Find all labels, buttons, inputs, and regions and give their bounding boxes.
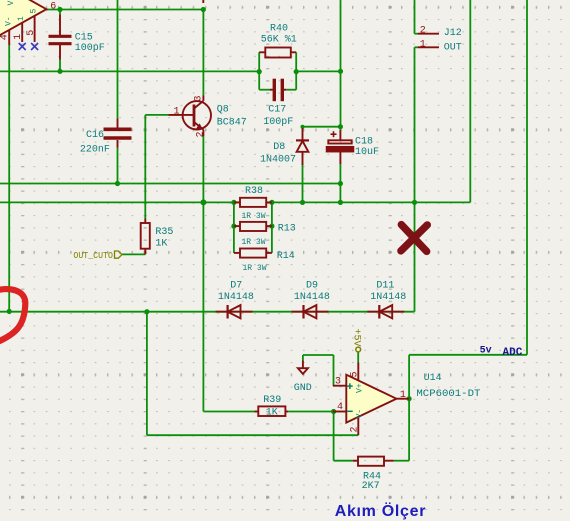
svg-text:10uF: 10uF (355, 147, 379, 158)
svg-text:3: 3 (194, 95, 205, 101)
svg-text:D8: D8 (273, 142, 285, 153)
svg-text:J12: J12 (444, 28, 462, 39)
svg-text:5v: 5v (480, 346, 492, 357)
svg-text:2: 2 (196, 131, 207, 137)
svg-text:V-: V- (4, 16, 13, 26)
svg-text:1: 1 (174, 107, 180, 118)
svg-text:R38: R38 (245, 186, 263, 197)
svg-text:2K7: 2K7 (362, 481, 380, 492)
svg-text:MCP6001-DT: MCP6001-DT (416, 389, 480, 400)
svg-text:1K: 1K (266, 408, 278, 419)
svg-text:D9: D9 (306, 281, 318, 292)
svg-text:Akım Ölçer: Akım Ölçer (335, 501, 426, 520)
svg-text:5: 5 (30, 9, 39, 14)
svg-text:Q8: Q8 (217, 105, 229, 116)
svg-text:C18: C18 (355, 136, 373, 147)
svg-text:5: 5 (350, 371, 361, 377)
svg-text:1R 3W: 1R 3W (242, 238, 266, 247)
svg-text:2: 2 (350, 426, 361, 432)
svg-text:D7: D7 (230, 281, 242, 292)
svg-text:100pF: 100pF (263, 117, 293, 128)
svg-text:1N4148: 1N4148 (370, 292, 406, 303)
svg-text:1: 1 (17, 16, 26, 21)
svg-text:1: 1 (13, 34, 24, 40)
svg-text:D11: D11 (376, 281, 394, 292)
svg-text:V-: V- (356, 409, 365, 419)
svg-text:C17: C17 (268, 105, 286, 116)
svg-text:4: 4 (337, 402, 343, 413)
svg-text:V+: V+ (356, 383, 365, 393)
svg-text:220nF: 220nF (80, 145, 110, 156)
svg-text:R13: R13 (278, 223, 296, 234)
svg-text:C16: C16 (86, 130, 104, 141)
svg-text:100pF: 100pF (75, 43, 105, 54)
svg-text:R35: R35 (155, 227, 173, 238)
svg-text:R39: R39 (263, 395, 281, 406)
svg-text:R14: R14 (277, 251, 295, 262)
svg-text:6: 6 (50, 2, 56, 13)
svg-text:1R 3W: 1R 3W (243, 264, 267, 273)
svg-text:2: 2 (420, 26, 426, 37)
svg-text:V: V (7, 1, 16, 6)
svg-text:5: 5 (26, 30, 37, 36)
svg-text:+5V: +5V (351, 329, 362, 347)
svg-text:1N4148: 1N4148 (294, 292, 330, 303)
svg-text:BC847: BC847 (217, 118, 247, 129)
svg-text:1K: 1K (155, 239, 167, 250)
svg-text:3: 3 (335, 377, 341, 388)
svg-text:U14: U14 (424, 373, 442, 384)
svg-text:1N4148: 1N4148 (218, 292, 254, 303)
svg-text:1R 3W: 1R 3W (242, 212, 266, 221)
svg-text:1: 1 (400, 390, 406, 401)
svg-text:OUT: OUT (444, 42, 462, 53)
svg-text:56K %1: 56K %1 (261, 35, 297, 46)
svg-text:1: 1 (420, 39, 426, 50)
svg-text:ADC: ADC (503, 347, 523, 359)
svg-text:OUT_CUTO: OUT_CUTO (73, 251, 113, 261)
svg-text:R40: R40 (270, 23, 288, 34)
svg-text:1N4007: 1N4007 (260, 155, 296, 166)
svg-text:GND: GND (294, 383, 312, 394)
svg-text:4: 4 (0, 34, 11, 40)
